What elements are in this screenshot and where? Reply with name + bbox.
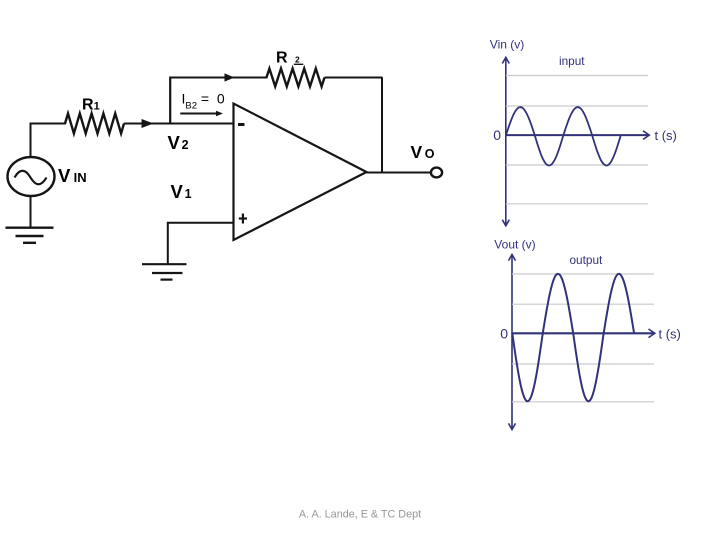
svg-text:2: 2 bbox=[295, 55, 300, 65]
ground (non-inverting input) bbox=[142, 264, 187, 279]
op-amp plus pin bbox=[239, 217, 247, 219]
feedback wire right vertical to output bbox=[381, 78, 383, 173]
svg-text:IB2 = 0: IB2 = 0 bbox=[182, 91, 225, 112]
feedback wire top (right segment) bbox=[325, 77, 383, 79]
output sine wave bbox=[512, 274, 634, 401]
svg-text:Vin (v): Vin (v) bbox=[490, 37, 524, 51]
input graph: t axis bbox=[506, 134, 649, 136]
input sine wave bbox=[506, 107, 621, 165]
output graph: vertical axis bbox=[511, 256, 513, 429]
svg-text:R: R bbox=[276, 50, 288, 67]
output terminal bbox=[431, 168, 442, 178]
input graph: gridlines bbox=[506, 76, 648, 204]
current arrow IB2 bbox=[180, 113, 217, 115]
svg-text:0: 0 bbox=[493, 127, 501, 143]
voltage source VIN bbox=[8, 157, 55, 196]
wire R1 to inverting input bbox=[124, 123, 234, 125]
svg-text:output: output bbox=[570, 253, 604, 267]
ground (source) bbox=[6, 228, 54, 243]
svg-text:0: 0 bbox=[500, 325, 508, 341]
svg-text:R1: R1 bbox=[82, 97, 100, 114]
resistor R2 bbox=[267, 69, 325, 87]
svg-text:VO: VO bbox=[411, 142, 435, 162]
svg-text:VIN: VIN bbox=[58, 165, 87, 186]
op-amp U1 bbox=[234, 104, 367, 241]
output graph: gridlines bbox=[512, 274, 654, 402]
svg-text:V1: V1 bbox=[171, 181, 192, 202]
svg-text:t (s): t (s) bbox=[659, 326, 681, 341]
output graph: t axis bbox=[512, 332, 654, 334]
svg-text:A. A. Lande, E & TC Dept: A. A. Lande, E & TC Dept bbox=[299, 509, 421, 521]
wire non-inverting input bbox=[168, 223, 234, 264]
input graph: vertical axis bbox=[505, 58, 507, 226]
op-amp minus pin bbox=[238, 123, 245, 126]
svg-text:t (s): t (s) bbox=[655, 128, 677, 143]
arrow on feedback wire bbox=[225, 73, 235, 81]
output wire bbox=[367, 172, 432, 174]
wire source top to R1 bbox=[31, 124, 67, 158]
svg-text:V2: V2 bbox=[168, 132, 189, 153]
resistor R1 bbox=[65, 114, 124, 134]
wire source bottom to ground bbox=[30, 196, 32, 228]
current arrow on input wire bbox=[142, 119, 154, 128]
node junction / feedback tap vertical wire bbox=[169, 78, 171, 124]
feedback wire top (left segment) bbox=[169, 77, 267, 79]
svg-text:Vout (v): Vout (v) bbox=[494, 238, 535, 252]
svg-text:input: input bbox=[559, 54, 585, 68]
